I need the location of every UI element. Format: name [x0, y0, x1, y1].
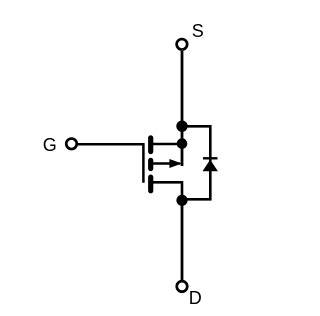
transistor Q1 body bar (middle channel bar) — [148, 160, 153, 168]
wire S trunk — [181, 51, 184, 126]
wire G lead and gate line Q1 — [78, 144, 143, 183]
terminal G — [66, 139, 77, 150]
wire bottom bar to node C — [151, 182, 182, 200]
node A junction dot — [176, 121, 187, 132]
wire body bar to trunk — [151, 162, 180, 165]
wire node A to node B — [181, 126, 184, 144]
wire top bar to node B — [151, 143, 182, 146]
wire node B to body arrow junction — [181, 144, 184, 166]
diode D1 anode triangle — [203, 160, 218, 172]
diode D1 cathode bar — [203, 157, 218, 159]
svg-text:G: G — [43, 135, 57, 155]
transistor Q1 source bar (top channel bar) — [148, 138, 153, 152]
terminal D — [177, 281, 188, 292]
wire D trunk — [181, 200, 184, 280]
transistor Q1 drain bar (bottom channel bar) — [148, 177, 153, 191]
svg-text:D: D — [189, 288, 202, 308]
body arrow of Q1 pointing right — [169, 159, 182, 168]
node C junction dot — [176, 195, 187, 206]
wire diode branch — [182, 126, 210, 199]
terminal S — [177, 39, 188, 50]
node B junction dot — [177, 138, 188, 149]
svg-text:S: S — [192, 21, 204, 41]
